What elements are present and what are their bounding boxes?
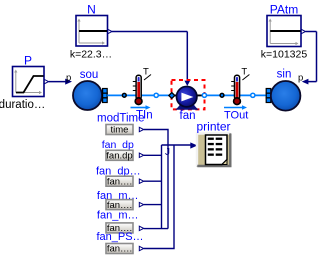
svg-text:sin: sin	[277, 69, 292, 81]
real expression fan_m2	[97, 210, 144, 235]
svg-text:fan….: fan….	[107, 176, 132, 187]
open fluid connector 2	[251, 93, 255, 97]
constant N	[76, 16, 112, 47]
svg-text:time: time	[111, 125, 129, 136]
fan black port stubs	[171, 94, 202, 96]
real expression fan_m1	[97, 190, 144, 211]
junction dot 1	[122, 93, 126, 97]
real expression fan_dpML	[96, 166, 144, 188]
fan highlight red dashed rect	[172, 80, 205, 109]
wire row5	[144, 228, 168, 230]
svg-text:P: P	[24, 54, 32, 68]
fluid line sou to fan	[107, 94, 170, 96]
open fluid connector 1	[154, 93, 158, 97]
svg-text:fan_m…: fan_m…	[97, 210, 139, 222]
wire PAtm to sin.p_in	[302, 32, 317, 85]
temperature sensor TOut	[224, 67, 249, 110]
wire bus main to printer	[162, 144, 191, 146]
constant PAtm	[267, 16, 306, 47]
fan	[175, 87, 199, 110]
wire bus vertical A	[161, 145, 163, 229]
boundary sin	[271, 81, 301, 111]
svg-text:fan: fan	[180, 110, 196, 122]
fluid line fan to sin	[207, 94, 266, 96]
svg-text:fan.dp: fan.dp	[106, 151, 132, 162]
svg-text:k=22.3…: k=22.3…	[70, 49, 112, 61]
printer	[197, 134, 230, 167]
svg-text:modTime: modTime	[97, 113, 145, 125]
svg-text:duratio…: duratio…	[0, 99, 45, 111]
wire row4	[144, 204, 162, 206]
temperature sensor TIn	[131, 67, 152, 110]
svg-text:PAtm: PAtm	[270, 3, 298, 17]
svg-text:p: p	[66, 73, 71, 84]
fan port_b ring	[202, 93, 206, 97]
svg-text:printer: printer	[196, 120, 230, 134]
sin fluid ports	[266, 89, 271, 103]
svg-text:fan_PS…: fan_PS…	[96, 231, 143, 243]
svg-text:T: T	[241, 67, 247, 78]
wire row1 to bus	[144, 130, 168, 229]
boundary sou	[73, 81, 102, 110]
svg-text:T: T	[143, 67, 149, 78]
svg-text:J: J	[165, 147, 170, 158]
real expression fan_PS	[96, 231, 143, 255]
svg-text:fan….: fan….	[107, 244, 132, 255]
svg-text:p: p	[298, 73, 303, 84]
printer input arrow	[190, 142, 197, 148]
ramp P	[13, 67, 49, 97]
svg-text:N: N	[87, 3, 96, 17]
real expression fan_dp	[102, 139, 144, 162]
real expression modTime	[106, 125, 144, 136]
wire bus vertical C and row6	[144, 145, 174, 249]
fan port_a diamond	[169, 93, 175, 99]
wire P to sou.p_in	[49, 79, 72, 85]
sou fluid ports	[103, 89, 108, 103]
svg-text:k=101325: k=101325	[261, 49, 308, 61]
wire row2	[144, 154, 162, 156]
wire row3	[144, 180, 162, 182]
svg-text:fan_dp: fan_dp	[102, 139, 134, 151]
svg-text:sou: sou	[80, 69, 99, 81]
junction dot 2	[220, 93, 224, 97]
wire N to fan	[112, 32, 190, 87]
